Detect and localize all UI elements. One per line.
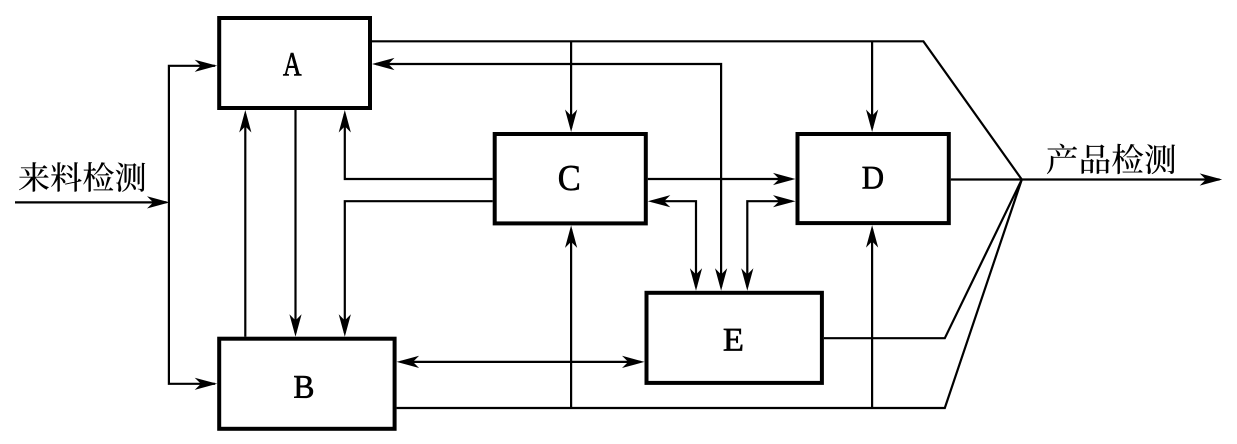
arrowhead output arrow tip: [1200, 173, 1223, 185]
wire C left to B top (L path): [345, 201, 493, 333]
label C: [559, 166, 579, 190]
wire bottom line rise to D bottom: [871, 229, 873, 408]
arrowhead up into C bottom: [565, 225, 577, 248]
arrowhead right into D left: [773, 173, 796, 185]
arrowhead input arrow into bus: [147, 196, 170, 208]
wire C left to A bottom (L path): [345, 114, 493, 179]
arrowhead down into D top: [866, 110, 878, 133]
wire A right to E top (bidirectional): [376, 64, 721, 287]
label A: [283, 53, 301, 75]
arrowhead down into B top from C: [339, 314, 351, 337]
arrowhead right into D left lower: [773, 195, 796, 207]
wire C right to E top (bidirectional): [652, 201, 696, 287]
wire B right to E left (bidirectional): [401, 361, 641, 363]
arrowhead left into C right: [648, 195, 671, 207]
wire D left to E top (bidirectional): [747, 201, 791, 287]
wire B to A vertical: [244, 114, 246, 337]
wire B bottom line to convergence: [397, 180, 1022, 409]
wire E right output to convergence: [824, 180, 1022, 339]
box E (process block): [647, 293, 822, 383]
arrowhead down into E top (left): [690, 268, 702, 291]
wire C right to D left: [648, 178, 792, 180]
box C (process block): [495, 134, 646, 223]
arrowhead right into E left: [622, 356, 645, 368]
arrowhead up into A bottom: [239, 110, 251, 133]
arrowhead down into C top: [565, 110, 577, 133]
box D (process block): [798, 134, 949, 223]
wire top line drop to D top: [871, 41, 873, 128]
wire D right output to convergence: [951, 178, 1022, 180]
arrowhead left into B right: [397, 356, 420, 368]
label 产品检测 (product inspection): [1047, 144, 1175, 175]
arrowhead into A left: [195, 60, 218, 72]
label B: [294, 376, 313, 398]
box B (process block): [219, 339, 394, 429]
arrowhead up into D bottom: [866, 225, 878, 248]
arrowhead down into E top (right): [741, 268, 753, 291]
label D: [863, 167, 883, 189]
wire left bus with branches to A and B: [169, 66, 215, 384]
label 来料检测 (incoming material inspection): [19, 162, 145, 192]
box A (process block): [219, 18, 370, 108]
arrowhead down into E top (middle): [715, 268, 727, 291]
label E: [724, 329, 742, 351]
arrowhead left into A right: [372, 58, 395, 70]
arrowhead up into A bottom from C: [339, 110, 351, 133]
wire bottom line rise to C bottom: [570, 229, 572, 408]
wire input arrow shaft (来料检测 feed into bus): [15, 201, 167, 203]
wire A to B vertical: [294, 110, 296, 333]
wire top line drop to C top: [570, 41, 572, 128]
arrowhead into B left: [195, 378, 218, 390]
wire output arrow shaft (产品检测): [1022, 178, 1220, 180]
arrowhead down into B top: [289, 314, 301, 337]
wire top line from A right to convergence: [372, 41, 1022, 179]
